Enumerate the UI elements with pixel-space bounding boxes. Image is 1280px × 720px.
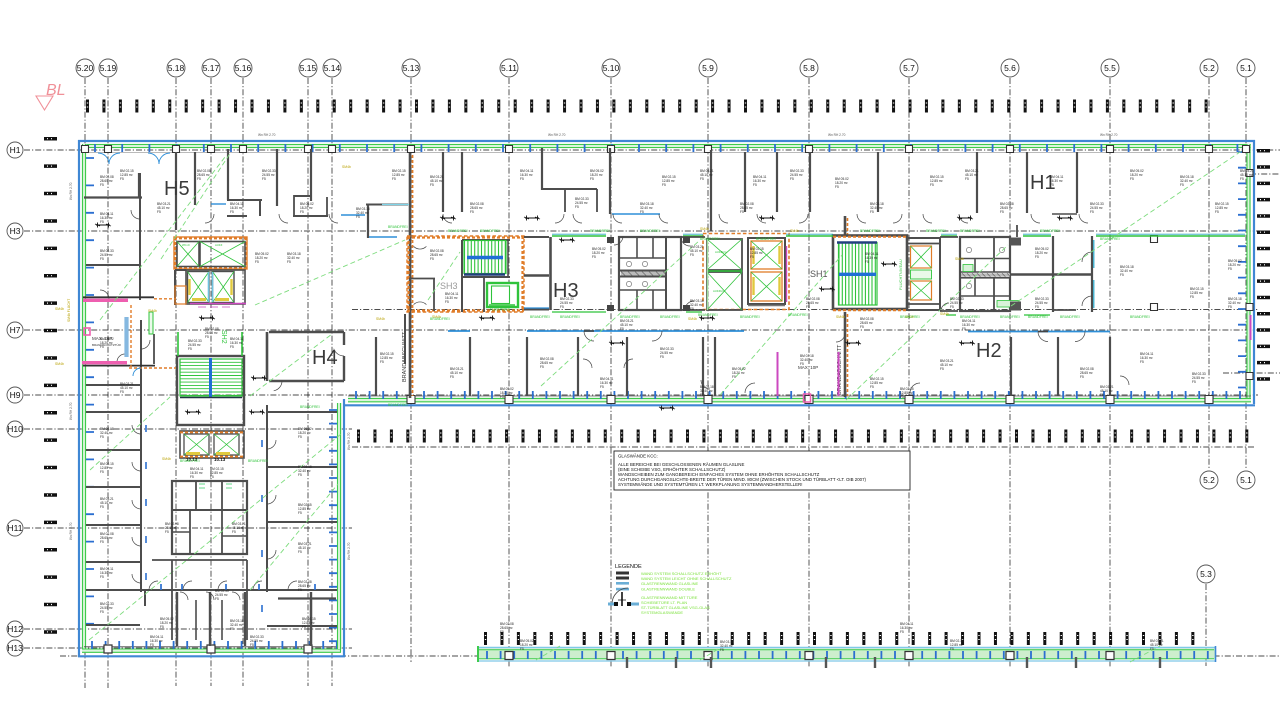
svg-text:F5: F5 xyxy=(600,385,604,389)
svg-text:5.7: 5.7 xyxy=(903,63,915,73)
svg-text:F5: F5 xyxy=(232,530,236,534)
grid axis 5.2 xyxy=(1200,59,1218,468)
svg-text:BRANDFREI: BRANDFREI xyxy=(740,315,760,319)
grid axis 5.13 xyxy=(402,59,420,662)
grid axis H7 xyxy=(7,322,1258,338)
svg-text:BRANDFREI: BRANDFREI xyxy=(448,229,468,233)
svg-text:Wn RH 2.70: Wn RH 2.70 xyxy=(69,182,73,200)
grid axis 5.3 (lower) xyxy=(1197,565,1215,666)
lower band office walls xyxy=(267,314,1110,396)
svg-text:GLASTRENNWAND GLASLINE: GLASTRENNWAND GLASLINE xyxy=(641,581,699,586)
svg-text:F5: F5 xyxy=(962,327,966,331)
lift bank right of SH1 xyxy=(907,238,940,310)
svg-text:SH2: SH2 xyxy=(220,330,227,344)
svg-text:5.20: 5.20 xyxy=(77,63,94,73)
blue arc near x141 xyxy=(133,368,141,376)
svg-text:F5: F5 xyxy=(950,305,954,309)
bottom room row blue door ticks xyxy=(161,584,315,590)
svg-text:SM4b: SM4b xyxy=(55,307,64,311)
svg-text:AUFZUG: AUFZUG xyxy=(715,250,727,254)
svg-text:FLUCHTNIVEAU: FLUCHTNIVEAU xyxy=(898,259,903,290)
svg-text:F5: F5 xyxy=(900,630,904,634)
svg-text:F5: F5 xyxy=(1050,183,1054,187)
green micro labels xyxy=(180,225,1150,463)
bottom strip columns xyxy=(505,652,1114,660)
svg-text:5.1: 5.1 xyxy=(1240,475,1252,485)
svg-text:BRANDFREI: BRANDFREI xyxy=(756,237,776,241)
svg-text:F5: F5 xyxy=(250,643,254,647)
svg-text:Wn RH 2.70: Wn RH 2.70 xyxy=(258,133,276,137)
svg-text:BRANDFREI: BRANDFREI xyxy=(530,315,550,319)
svg-text:5.8: 5.8 xyxy=(803,63,815,73)
top dimension tick row xyxy=(86,100,1208,113)
svg-text:F5: F5 xyxy=(860,325,864,329)
svg-text:F5: F5 xyxy=(870,210,874,214)
svg-text:H11: H11 xyxy=(8,523,23,533)
corridor wall x154 xyxy=(153,334,155,364)
svg-text:F5: F5 xyxy=(100,540,104,544)
svg-text:F5: F5 xyxy=(302,625,306,629)
svg-text:F5: F5 xyxy=(100,575,104,579)
svg-text:F5: F5 xyxy=(100,220,104,224)
svg-text:GLASWÄNDE KCC:: GLASWÄNDE KCC: xyxy=(618,454,658,459)
grid axis 5.5 xyxy=(1101,59,1119,668)
svg-text:F5: F5 xyxy=(300,210,304,214)
svg-text:H4: H4 xyxy=(312,347,338,369)
svg-text:F5: F5 xyxy=(120,390,124,394)
svg-text:F5: F5 xyxy=(700,393,704,397)
svg-text:F5: F5 xyxy=(298,473,302,477)
facade micro vertical labels xyxy=(69,133,1118,560)
svg-text:F5: F5 xyxy=(100,470,104,474)
svg-text:SM4b: SM4b xyxy=(790,229,799,233)
svg-text:F5: F5 xyxy=(262,177,266,181)
green diagonal guides xyxy=(89,150,1243,662)
grid axis 5.11 xyxy=(500,59,518,668)
left wing east facade wall xyxy=(329,399,344,657)
pink wall band y299 xyxy=(83,297,154,302)
grid axis 5.14 xyxy=(323,59,341,686)
bottom strip wall stubs xyxy=(626,657,1161,668)
svg-text:5.9: 5.9 xyxy=(702,63,714,73)
svg-text:F5: F5 xyxy=(1215,210,1219,214)
grid axis 5.15 xyxy=(299,59,317,686)
grid axis 5.2 lower circle xyxy=(1200,471,1218,489)
svg-text:F5: F5 xyxy=(753,183,757,187)
grid axis 5.19 xyxy=(99,59,117,688)
svg-text:5.19: 5.19 xyxy=(100,63,117,73)
grid axis H3 xyxy=(7,223,1258,239)
svg-text:F5: F5 xyxy=(157,210,161,214)
svg-text:FLUCHTWEG: FLUCHTWEG xyxy=(490,308,511,312)
svg-text:F5: F5 xyxy=(298,435,302,439)
svg-text:BRANDFREI: BRANDFREI xyxy=(430,317,450,321)
svg-text:F5: F5 xyxy=(100,183,104,187)
svg-text:SYSTEMWÄNDE UND SYSTEMTÜREN LT: SYSTEMWÄNDE UND SYSTEMTÜREN LT. WERKPLAN… xyxy=(618,482,802,487)
svg-text:H10: H10 xyxy=(7,424,23,434)
svg-text:BRANDFREI: BRANDFREI xyxy=(1130,315,1150,319)
svg-text:F5: F5 xyxy=(205,335,209,339)
svg-text:BRANDFREI: BRANDFREI xyxy=(700,237,720,241)
svg-text:5.6: 5.6 xyxy=(1004,63,1016,73)
svg-text:F5: F5 xyxy=(470,210,474,214)
right facade wall xyxy=(1238,140,1254,404)
svg-text:F5: F5 xyxy=(1120,273,1124,277)
left wing bottom room row xyxy=(130,590,336,646)
note text block GLASWAENDE xyxy=(614,451,910,490)
SH3 left rooms internal walls xyxy=(409,246,435,311)
corridor bottom glass segments y312 xyxy=(552,312,1050,315)
svg-text:AUFZ: AUFZ xyxy=(215,243,223,247)
svg-text:5.11: 5.11 xyxy=(501,63,517,73)
svg-text:5.2: 5.2 xyxy=(1203,475,1215,485)
lower dimension tick row (below main wing) xyxy=(357,430,1248,443)
magenta marker right wall xyxy=(1250,315,1252,340)
WC core left wing xyxy=(172,481,247,554)
svg-text:H3: H3 xyxy=(10,226,21,236)
svg-text:SM4b: SM4b xyxy=(700,227,709,231)
fire wall Brandabschnitt x410 xyxy=(402,153,413,398)
lower band door arcs xyxy=(274,349,1129,393)
grid axis 5.20 xyxy=(76,59,94,688)
corridor pilasters xyxy=(607,237,690,311)
svg-text:F5: F5 xyxy=(230,627,234,631)
svg-text:5.16: 5.16 xyxy=(235,63,252,73)
svg-text:F5: F5 xyxy=(100,257,104,261)
svg-text:BRANDFREI: BRANDFREI xyxy=(300,405,320,409)
svg-text:F5: F5 xyxy=(835,185,839,189)
svg-text:F5: F5 xyxy=(230,210,234,214)
svg-text:5.13: 5.13 xyxy=(403,63,420,73)
svg-text:F5: F5 xyxy=(100,505,104,509)
svg-text:F5: F5 xyxy=(690,253,694,257)
svg-text:BRANDFREI: BRANDFREI xyxy=(1100,237,1120,241)
svg-text:10.13: 10.13 xyxy=(214,457,226,462)
svg-text:F5: F5 xyxy=(806,305,810,309)
svg-text:LEGENDE: LEGENDE xyxy=(615,564,642,570)
svg-text:BRANDFREI: BRANDFREI xyxy=(388,403,408,407)
svg-text:F5: F5 xyxy=(1180,183,1184,187)
svg-text:F5: F5 xyxy=(520,647,524,651)
grid axis 5.9 xyxy=(699,59,717,668)
lobby walls x940-958 xyxy=(940,237,958,311)
svg-text:BRANDFREI: BRANDFREI xyxy=(480,229,500,233)
svg-text:F5: F5 xyxy=(662,183,666,187)
grid axis H11 xyxy=(7,520,352,536)
bottom strip axis y656 xyxy=(60,655,1280,657)
svg-text:H5: H5 xyxy=(164,178,190,200)
svg-text:F5: F5 xyxy=(940,367,944,371)
svg-text:BRANDFREI: BRANDFREI xyxy=(1000,315,1020,319)
left wing corridor blue door ticks xyxy=(146,425,262,612)
svg-text:F5: F5 xyxy=(590,177,594,181)
svg-text:F5: F5 xyxy=(1190,295,1194,299)
svg-text:SM4b FLUCHT: SM4b FLUCHT xyxy=(67,299,71,322)
svg-text:F5: F5 xyxy=(100,610,104,614)
svg-text:SYSTEMGLASWÄNDE: SYSTEMGLASWÄNDE xyxy=(641,610,683,615)
lift core E xyxy=(748,238,787,306)
right dimension tick column xyxy=(1257,149,1270,381)
left wing bottom facade wall xyxy=(78,641,345,656)
svg-text:5.1: 5.1 xyxy=(1240,63,1252,73)
grid axis 5.8 xyxy=(800,59,818,668)
top facade wall (glass, blue+green) xyxy=(78,141,1255,153)
svg-text:F5: F5 xyxy=(1035,255,1039,259)
dimension line y447 xyxy=(352,446,1256,448)
columns on right facade xyxy=(1246,170,1253,380)
svg-text:Wn RH 2.70: Wn RH 2.70 xyxy=(548,133,566,137)
svg-text:F5: F5 xyxy=(150,643,154,647)
svg-text:H2: H2 xyxy=(976,340,1002,362)
svg-text:BRANDFREI: BRANDFREI xyxy=(180,459,200,463)
corridor glass walls y236 xyxy=(552,234,1245,236)
svg-text:BRANDFREI: BRANDFREI xyxy=(640,229,660,233)
svg-text:Wn RH 2.70: Wn RH 2.70 xyxy=(828,133,846,137)
svg-text:H9: H9 xyxy=(10,390,21,400)
lift core A lower block (2 lifts) xyxy=(175,270,246,307)
dimension line y174 right xyxy=(1250,173,1280,175)
svg-text:F5: F5 xyxy=(950,647,954,651)
svg-text:5.3: 5.3 xyxy=(1200,569,1212,579)
grid axis H10 xyxy=(7,421,352,437)
svg-text:F5: F5 xyxy=(500,630,504,634)
svg-text:F5: F5 xyxy=(160,625,164,629)
svg-text:F5: F5 xyxy=(298,511,302,515)
svg-text:F5: F5 xyxy=(230,345,234,349)
svg-text:BRANDFREI: BRANDFREI xyxy=(860,229,880,233)
svg-text:F5: F5 xyxy=(210,475,214,479)
grid axis 5.17 xyxy=(202,59,220,686)
left wing door arcs xyxy=(100,210,297,590)
svg-text:F5: F5 xyxy=(1100,393,1104,397)
lift pair below SH2 xyxy=(180,431,244,462)
svg-text:F5: F5 xyxy=(540,365,544,369)
svg-text:F5: F5 xyxy=(575,205,579,209)
lift core A upper block xyxy=(174,237,247,269)
grid axis H12 xyxy=(7,621,352,637)
main wing bottom facade wall xyxy=(344,391,1255,405)
stair SH2 xyxy=(177,330,244,425)
svg-text:F5: F5 xyxy=(520,177,524,181)
grid axis H1 xyxy=(7,142,1280,158)
svg-text:F5: F5 xyxy=(100,435,104,439)
svg-text:F5: F5 xyxy=(1228,267,1232,271)
svg-text:SH3: SH3 xyxy=(440,281,458,291)
svg-text:F5: F5 xyxy=(215,597,219,601)
svg-text:5.14: 5.14 xyxy=(324,63,341,73)
svg-text:F5: F5 xyxy=(392,177,396,181)
svg-text:F5: F5 xyxy=(870,385,874,389)
orange dash y368 and y298 xyxy=(129,299,176,368)
svg-text:F5: F5 xyxy=(732,375,736,379)
svg-text:SM4b: SM4b xyxy=(688,317,697,321)
legend xyxy=(608,564,732,615)
svg-text:F5: F5 xyxy=(197,177,201,181)
annotation micro-texts xyxy=(100,169,1254,652)
grid axis 5.16 xyxy=(234,59,252,686)
left wing centre lower rooms xyxy=(152,560,247,640)
svg-text:F5: F5 xyxy=(445,300,449,304)
svg-text:BRANDFREI: BRANDFREI xyxy=(388,225,408,229)
svg-text:H13: H13 xyxy=(7,643,23,653)
svg-text:F5: F5 xyxy=(900,395,904,399)
grid axis 5.18 xyxy=(167,59,185,686)
stair SH1 xyxy=(810,236,907,311)
svg-text:SM4b: SM4b xyxy=(162,457,171,461)
svg-text:F5: F5 xyxy=(865,260,869,264)
svg-text:Wn RH 2.70: Wn RH 2.70 xyxy=(69,402,73,420)
svg-text:F5: F5 xyxy=(430,183,434,187)
grid axis H9 xyxy=(7,387,1258,403)
left dimension tick column xyxy=(44,137,57,634)
grid axis 5.7 xyxy=(900,59,918,668)
svg-text:F5: F5 xyxy=(750,255,754,259)
fire wall Brandabschnitt x845 xyxy=(837,216,848,397)
svg-text:BRANDFREI: BRANDFREI xyxy=(960,229,980,233)
svg-text:SM4b: SM4b xyxy=(148,309,157,313)
orange dash x131 xyxy=(130,305,132,367)
svg-text:F5: F5 xyxy=(592,255,596,259)
svg-text:F5: F5 xyxy=(720,648,724,652)
WC core centre xyxy=(619,237,681,310)
svg-text:F5: F5 xyxy=(800,362,804,366)
svg-text:F5: F5 xyxy=(190,475,194,479)
svg-text:Wn RH 2.70: Wn RH 2.70 xyxy=(69,522,73,540)
svg-text:WC-D: WC-D xyxy=(182,243,190,247)
glass partition lines top band xyxy=(211,204,660,237)
svg-text:F5: F5 xyxy=(188,347,192,351)
facade columns top xyxy=(82,146,1250,153)
svg-text:F5: F5 xyxy=(690,307,694,311)
dimension plus marks xyxy=(95,216,1073,415)
svg-text:SM4b: SM4b xyxy=(342,165,351,169)
pink square marker xyxy=(84,328,90,335)
svg-text:H12: H12 xyxy=(7,624,23,634)
svg-text:GLASTRENNWAND DOUBLE: GLASTRENNWAND DOUBLE xyxy=(641,587,695,592)
svg-text:BRANDFREI: BRANDFREI xyxy=(660,315,680,319)
svg-text:BRANDFREI: BRANDFREI xyxy=(788,313,808,317)
svg-text:F5: F5 xyxy=(100,345,104,349)
left facade wall xyxy=(79,140,94,657)
svg-text:F5: F5 xyxy=(1035,305,1039,309)
grid axis 5.1 xyxy=(1237,59,1255,468)
svg-text:BRANDFREI: BRANDFREI xyxy=(620,315,640,319)
WC core right xyxy=(960,225,1021,311)
left wing east room walls xyxy=(267,405,337,626)
svg-text:F5: F5 xyxy=(1150,647,1154,651)
svg-text:SM4b: SM4b xyxy=(55,362,64,366)
svg-text:5.18: 5.18 xyxy=(168,63,185,73)
svg-text:H1: H1 xyxy=(10,145,21,155)
small rooms left of H3 corridor xyxy=(524,237,551,310)
exit room green box in SH3 xyxy=(487,283,518,312)
BL north marker xyxy=(36,82,66,110)
svg-text:AUFZUG: AUFZUG xyxy=(713,289,725,293)
svg-text:5.5: 5.5 xyxy=(1104,63,1116,73)
svg-text:BRANDFREI: BRANDFREI xyxy=(1040,229,1060,233)
grid axis 5.1 lower circle xyxy=(1237,471,1255,489)
svg-text:F5: F5 xyxy=(1228,305,1232,309)
facade columns bottom of main wing xyxy=(407,396,1213,404)
svg-text:F5: F5 xyxy=(1090,210,1094,214)
stair core SH3 xyxy=(407,236,524,312)
svg-text:BRANDFREI: BRANDFREI xyxy=(1060,315,1080,319)
pink wall band y362 xyxy=(82,361,155,366)
top band office walls xyxy=(84,148,1077,238)
svg-text:F5: F5 xyxy=(120,177,124,181)
left wing west room walls xyxy=(86,173,141,625)
svg-text:5.15: 5.15 xyxy=(300,63,317,73)
svg-text:5.2: 5.2 xyxy=(1203,63,1215,73)
corridor glass walls y331 (blue) xyxy=(448,236,1110,342)
svg-text:F5: F5 xyxy=(500,395,504,399)
svg-text:F5: F5 xyxy=(380,360,384,364)
svg-text:F5: F5 xyxy=(930,183,934,187)
svg-text:F5: F5 xyxy=(255,260,259,264)
svg-text:F5: F5 xyxy=(430,257,434,261)
svg-text:F5: F5 xyxy=(1192,380,1196,384)
svg-text:Wn RH 2.70: Wn RH 2.70 xyxy=(1100,133,1118,137)
svg-text:5.10: 5.10 xyxy=(603,63,620,73)
svg-text:5.17: 5.17 xyxy=(203,63,220,73)
svg-text:BRANDFREI: BRANDFREI xyxy=(960,315,980,319)
svg-text:F5: F5 xyxy=(965,177,969,181)
svg-text:F5: F5 xyxy=(560,305,564,309)
svg-text:F5: F5 xyxy=(1000,210,1004,214)
magenta door frame walls bottom corridor xyxy=(778,352,839,402)
svg-text:F5: F5 xyxy=(450,375,454,379)
svg-text:BRANDFREI: BRANDFREI xyxy=(560,315,580,319)
svg-text:SM4b: SM4b xyxy=(955,257,964,261)
svg-text:F5: F5 xyxy=(1240,177,1244,181)
svg-text:Wn RH 2.70: Wn RH 2.70 xyxy=(347,542,351,560)
svg-text:H7: H7 xyxy=(10,325,21,335)
svg-text:F5: F5 xyxy=(1080,375,1084,379)
svg-text:F5: F5 xyxy=(620,327,624,331)
bottom facade strip xyxy=(477,646,1216,662)
grid axis 5.6 xyxy=(1001,59,1019,668)
svg-text:SM4b: SM4b xyxy=(940,312,949,316)
double entry doors on top facade (blue) xyxy=(98,153,170,164)
free columns in open plan xyxy=(1151,236,1158,311)
svg-text:F5: F5 xyxy=(660,355,664,359)
svg-text:F5: F5 xyxy=(1140,360,1144,364)
svg-text:Wn RH 2.70: Wn RH 2.70 xyxy=(347,432,351,450)
svg-text:F5: F5 xyxy=(640,210,644,214)
svg-text:SM4b: SM4b xyxy=(836,315,845,319)
svg-text:SM4b: SM4b xyxy=(376,317,385,321)
svg-text:F5: F5 xyxy=(287,260,291,264)
grid axis H13 xyxy=(7,640,352,656)
dimension line y373 right xyxy=(1223,372,1280,374)
svg-text:F5: F5 xyxy=(298,588,302,592)
svg-text:F5: F5 xyxy=(298,550,302,554)
svg-text:BRANDFREI: BRANDFREI xyxy=(248,459,268,463)
svg-text:F5: F5 xyxy=(790,177,794,181)
svg-text:F5: F5 xyxy=(700,177,704,181)
svg-text:F5: F5 xyxy=(165,530,169,534)
svg-text:BRANDFREI: BRANDFREI xyxy=(698,313,718,317)
room block right of WC xyxy=(1010,236,1094,312)
lobby walls x681-705 xyxy=(681,237,705,310)
svg-text:BRANDFREI: BRANDFREI xyxy=(926,229,946,233)
svg-text:F5: F5 xyxy=(1130,177,1134,181)
unlabeled grid line y307 xyxy=(352,309,1258,311)
svg-text:BRANDFREI: BRANDFREI xyxy=(590,229,610,233)
green box x149 xyxy=(149,312,153,334)
left wing bottom facade columns xyxy=(104,645,312,653)
lift core D xyxy=(703,234,789,311)
